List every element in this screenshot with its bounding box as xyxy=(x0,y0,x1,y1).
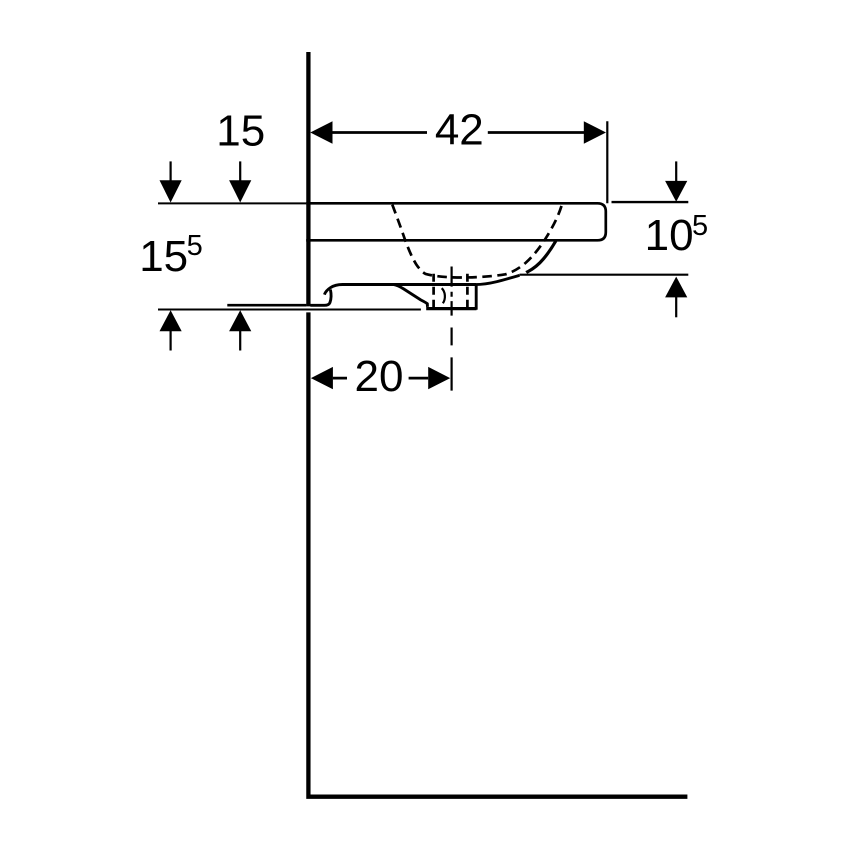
dashed drain vertical left xyxy=(432,274,435,308)
dashed drain vertical right xyxy=(466,274,469,308)
svg-text:5: 5 xyxy=(187,230,203,262)
down arrow x170 xyxy=(170,161,172,180)
left reference line top (slab top level) xyxy=(158,202,306,204)
up arrow x240 xyxy=(239,331,241,351)
svg-text:10: 10 xyxy=(645,211,694,260)
up arrow x170 xyxy=(170,331,172,351)
dimension 20 left arrow xyxy=(311,367,333,389)
svg-text:5: 5 xyxy=(692,210,708,242)
underside curve right of boss xyxy=(475,275,520,284)
centerline of drain xyxy=(451,267,453,391)
mounting hook stem and bottom xyxy=(310,290,331,306)
down arrow x240 xyxy=(239,161,241,180)
wall lower segment and floor line xyxy=(308,312,687,796)
dimension 10.5 up arrow xyxy=(675,297,677,317)
dimension 20 line xyxy=(333,377,428,380)
svg-text:20: 20 xyxy=(355,352,404,401)
drain boss right side xyxy=(475,285,478,310)
svg-text:42: 42 xyxy=(435,105,484,154)
dimension 42 extension line xyxy=(606,121,608,203)
svg-text:15: 15 xyxy=(216,106,265,155)
dimension 42 right arrow xyxy=(584,121,606,144)
washbasin slab outline xyxy=(306,203,606,240)
dimension 20 right arrow xyxy=(428,367,450,389)
dimension 42 line xyxy=(332,131,585,134)
drain outlet arc xyxy=(442,288,445,303)
outer bowl curve right xyxy=(526,241,556,272)
dimension 10.5 down arrow xyxy=(675,161,677,181)
wall upper segment xyxy=(306,52,310,306)
dashed inner bowl profile xyxy=(392,205,562,278)
siphon pocket funnel outline xyxy=(394,285,428,307)
right reference line top (slab top level) xyxy=(612,201,689,203)
basin underside line from hook tip across drain boss xyxy=(324,285,476,295)
drain boss bottom xyxy=(426,307,476,310)
left short reference line (basin bottom edge level) xyxy=(227,304,306,307)
long thin reference line (lowest point level) xyxy=(158,309,421,311)
svg-text:15: 15 xyxy=(139,232,188,281)
thin reference line bowl interior bottom level xyxy=(520,274,689,276)
dimension 42 left arrow xyxy=(310,121,332,144)
